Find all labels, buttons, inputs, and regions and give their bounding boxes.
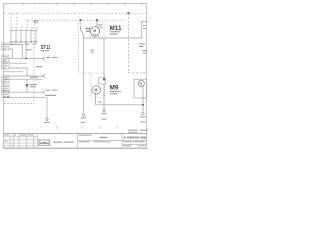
motor M9 dashed box	[91, 73, 105, 98]
dashed boundary bottom left	[4, 103, 34, 105]
logo text	[40, 141, 49, 145]
title mid divider	[78, 134, 123, 149]
right cell grid	[122, 140, 147, 148]
wire marks row97 left	[4, 95, 9, 98]
page border frame	[4, 4, 147, 149]
wire Q9 down	[83, 36, 85, 114]
bottom ruler ticks	[57, 127, 117, 130]
wire number text row97	[45, 95, 56, 96]
terminal X2.6 text	[140, 116, 146, 122]
node M9 tap	[103, 78, 105, 80]
PLC output box A4	[2, 55, 9, 62]
terminal strip ST11 rail	[10, 41, 38, 43]
diode V1	[26, 79, 28, 92]
company text	[53, 142, 74, 143]
diode side text	[30, 84, 38, 87]
dashed drop to contact K1	[10, 13, 12, 26]
motor M11 dashed box	[90, 22, 104, 36]
svg-text:M11: M11	[110, 25, 123, 32]
svg-text:M9: M9	[110, 85, 120, 92]
cross reference text right	[139, 44, 147, 54]
wire M11 bottom lead	[94, 36, 96, 38]
terminal numbers	[11, 44, 36, 51]
motor M11 circle	[91, 27, 100, 36]
wire row 79	[4, 78, 43, 80]
wire row 44	[9, 45, 22, 59]
wire rail exit to border	[142, 22, 147, 39]
wire M9 leads to rail	[96, 84, 105, 105]
wire row 63	[9, 62, 26, 64]
terminal strip ST11 clamps	[10, 41, 37, 43]
wire brake to rail	[142, 87, 144, 113]
wire strip to row58	[25, 43, 27, 59]
plug contact M11	[99, 24, 102, 27]
node row58 junction	[25, 58, 27, 60]
pin symbol row 58	[43, 57, 45, 60]
brake contact M9	[99, 78, 106, 84]
dashed linkage Q9 to M9	[79, 23, 92, 74]
wire row 49	[9, 49, 12, 58]
PLC box A4 text	[3, 56, 8, 61]
dashed supply line	[27, 19, 127, 21]
brake Y1 glyph	[140, 82, 143, 86]
dashed drop to contact K3	[26, 20, 28, 26]
terminal X2.4 text	[101, 113, 107, 119]
PLC box A1 text	[3, 44, 8, 49]
PLC output box A1	[2, 43, 9, 50]
switch Q9 label	[86, 28, 91, 32]
pin text row 92	[46, 90, 58, 91]
origin row text	[79, 135, 111, 143]
breaker contact row	[11, 27, 38, 31]
terminal X1.8	[46, 118, 48, 120]
dashed enclosure right edge	[128, 13, 130, 73]
wire row 92	[4, 91, 43, 93]
PLC output box A3	[2, 85, 9, 92]
wire row 76	[4, 75, 43, 77]
wire row 72	[4, 71, 24, 73]
title block revision grid	[4, 134, 38, 149]
brake Y1 coil circle	[138, 80, 144, 86]
svg-text:ST11: ST11	[41, 45, 51, 51]
dashed enclosure line top	[4, 12, 146, 14]
wire number text	[143, 25, 146, 29]
svg-text:HÄNDLE: HÄNDLE	[40, 141, 49, 145]
label M9	[110, 85, 120, 92]
top ruler ticks	[6, 4, 142, 6]
node brake rail junction	[142, 104, 144, 106]
PLC output box A6	[2, 91, 9, 98]
dashed device boundary ST11 block	[33, 20, 35, 103]
wire row 58	[4, 57, 43, 59]
wire row 68 with corner	[9, 68, 27, 76]
terminal X2.4	[103, 109, 105, 111]
footer page reference text	[128, 130, 148, 133]
ST11 sub label	[41, 50, 49, 51]
wire label PG	[36, 66, 42, 67]
pin symbol row 76	[43, 75, 45, 78]
diode V1 triangle	[25, 84, 28, 87]
switch Q9 contact	[80, 27, 83, 36]
wires contacts to terminal strip	[11, 31, 36, 42]
logo box HANDLE	[39, 140, 50, 145]
wire drop to switch Q9	[80, 20, 82, 27]
wire row 97 to terminal	[4, 98, 48, 118]
motor M11 3ph glyph	[94, 33, 97, 36]
wire terminal drop 104	[103, 105, 105, 109]
breaker bottom bus	[10, 30, 37, 32]
M9 sub label	[110, 91, 121, 94]
terminal X2.6	[142, 113, 144, 115]
title block frame	[4, 134, 147, 149]
node supply tap 97	[96, 19, 98, 21]
terminal X2.1 text	[81, 117, 87, 122]
label M11	[110, 25, 123, 32]
breaker label -Q11	[33, 19, 39, 23]
label ST11	[41, 45, 51, 51]
PLC output box A5	[2, 76, 9, 83]
wire rail 105	[96, 104, 144, 106]
motor M9 M glyph	[94, 88, 97, 92]
revision header text	[4, 135, 33, 142]
svg-text:2-98082 M9: 2-98082 M9	[123, 135, 146, 139]
svg-text:M: M	[94, 88, 97, 92]
terminal X2.1	[82, 114, 84, 116]
wire feed M11	[95, 20, 97, 27]
PLC box A3 text	[3, 86, 8, 91]
terminal X1.8 text	[44, 122, 50, 123]
pin symbol row 92	[43, 91, 45, 94]
PLC box A2 text	[3, 63, 8, 68]
wire feed M9	[103, 38, 105, 79]
PLC box A5 text	[3, 77, 8, 82]
motor M9 3ph glyph	[95, 93, 98, 95]
PLC output box A2	[2, 62, 9, 69]
node dashed branch	[127, 12, 129, 14]
right cell small text	[123, 141, 145, 146]
wire number above rail	[98, 102, 103, 103]
M11 sub label	[110, 31, 121, 34]
node supply tap Q9	[79, 19, 81, 21]
wire text row79	[30, 77, 38, 78]
motor M11 M glyph	[93, 29, 96, 33]
wire rail 38	[84, 37, 142, 39]
pin text row 58	[46, 57, 58, 58]
brake Y1 box	[134, 79, 147, 98]
PLC box A6 text	[3, 92, 8, 95]
wire number label 83	[91, 50, 95, 53]
dashed drop to contact K2	[16, 13, 18, 26]
drawing number text	[123, 135, 146, 139]
dashed enclosure bottom right	[129, 72, 147, 74]
motor M9 circle	[92, 86, 101, 95]
svg-text:-Q1: -Q1	[33, 19, 39, 23]
